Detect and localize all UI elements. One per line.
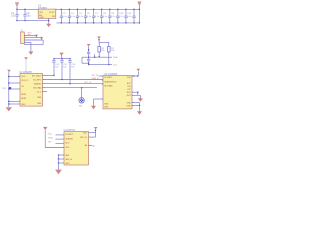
U4 pin marks	[63, 134, 64, 137]
power symbol J1-b	[40, 37, 44, 40]
svg-text:GND: GND	[127, 102, 132, 104]
wire rail C	[54, 58, 70, 60]
svg-text:INT2: INT2	[127, 95, 131, 97]
svg-text:S7V8F5: S7V8F5	[38, 7, 48, 10]
power flag VIN	[15, 2, 19, 5]
svg-text:VIN: VIN	[39, 12, 43, 14]
U3 ground bottom-left	[94, 98, 104, 100]
power symbol U4 left	[43, 127, 48, 130]
wire row R3	[43, 83, 104, 85]
svg-text:GND: GND	[127, 105, 132, 107]
capacitor C12	[133, 9, 135, 16]
ground U3 right mid	[138, 94, 141, 96]
capacitor C3	[60, 9, 62, 16]
ground U2 left	[6, 107, 12, 111]
wire pull-up rail	[99, 41, 109, 43]
connector J1	[21, 32, 25, 44]
pin marks J1	[24, 34, 25, 37]
wire rail B bottom	[57, 22, 140, 24]
capacitor C2	[24, 9, 26, 14]
capacitor C8	[101, 9, 103, 16]
U3 pin marks	[102, 75, 103, 78]
wire J1 pin5	[24, 44, 43, 46]
svg-text:GND: GND	[21, 104, 26, 106]
wire row R2	[43, 79, 104, 81]
wire R2 vertical / capacitor C15	[61, 59, 63, 61]
power flag 5V right	[137, 1, 141, 4]
wire J1 pin1	[24, 34, 35, 36]
wire row R1	[43, 74, 55, 76]
U3 right power	[132, 75, 138, 77]
power symbol 3V3 pull-ups	[97, 37, 101, 40]
resistor R2	[108, 47, 111, 53]
wire rail B top	[56, 8, 140, 10]
ground	[48, 18, 50, 23]
ground rail C	[61, 55, 63, 59]
svg-text:SDA_M: SDA_M	[92, 77, 99, 80]
svg-text:VDD: VDD	[21, 76, 26, 78]
IC U2 sensor	[20, 74, 43, 107]
wire J1 pin3	[24, 39, 43, 41]
regulator U1	[38, 9, 56, 18]
U4 ground bottom-left	[59, 154, 65, 156]
svg-text:10n: 10n	[71, 67, 74, 69]
svg-text:SDA/SDI: SDA/SDI	[65, 137, 73, 140]
svg-text:GND: GND	[39, 17, 44, 19]
svg-text:U2 LPS25H: U2 LPS25H	[19, 71, 32, 74]
U3 right mid stubs	[132, 91, 138, 93]
svg-text:A0: A0	[85, 144, 87, 147]
svg-text:SDA: SDA	[113, 56, 118, 59]
wire U2 left stubs	[9, 76, 20, 78]
IC U3	[103, 76, 132, 109]
svg-text:RES2: RES2	[21, 98, 26, 100]
wire top rail left	[17, 8, 38, 10]
svg-text:GND: GND	[104, 103, 109, 105]
wire SDA row	[87, 56, 112, 58]
svg-text:INT1: INT1	[127, 92, 131, 94]
svg-text:SCL_M: SCL_M	[84, 82, 91, 84]
U3 left stub	[99, 75, 104, 77]
svg-text:SDO/SA0: SDO/SA0	[33, 87, 41, 90]
U4 right power	[94, 127, 98, 130]
svg-text:10n: 10n	[63, 67, 66, 69]
IC U4	[64, 132, 89, 165]
capacitor C18	[88, 57, 90, 59]
svg-text:GND: GND	[37, 103, 42, 105]
U3 right lower stubs	[132, 102, 140, 104]
svg-text:SCL/SPC: SCL/SPC	[65, 134, 74, 136]
capacitor C9	[109, 9, 111, 16]
svg-text:INT_M: INT_M	[92, 75, 99, 77]
svg-text:SDA/SDI: SDA/SDI	[34, 83, 42, 86]
svg-text:VDD: VDD	[65, 147, 70, 149]
wire bottom rail left	[17, 20, 49, 22]
capacitor C5	[76, 9, 78, 16]
svg-text:SDO/SA0: SDO/SA0	[104, 84, 112, 87]
svg-text:VOUT: VOUT	[49, 12, 55, 14]
power symbol C17 branch	[87, 44, 91, 47]
svg-text:GND: GND	[65, 163, 70, 165]
power symbol J1-a	[35, 35, 39, 38]
capacitor C4	[68, 9, 70, 16]
U2 left pin marks	[19, 75, 20, 78]
svg-text:VDD: VDD	[127, 77, 132, 79]
U4 right A0 stub	[89, 144, 93, 146]
U2 right pin marks	[43, 74, 44, 77]
power symbol U2 top pin	[24, 57, 28, 60]
svg-text:VDD_IO: VDD_IO	[80, 137, 88, 139]
wire stub SDA right	[94, 54, 96, 57]
svg-text:SDA: SDA	[48, 137, 53, 140]
capacitor C7	[93, 9, 95, 16]
svg-text:SCL/SPC: SCL/SPC	[33, 79, 42, 81]
svg-text:GND: GND	[104, 107, 109, 109]
svg-text:RES1: RES1	[21, 94, 26, 96]
svg-text:U3 LIS3MDL: U3 LIS3MDL	[104, 73, 118, 76]
buzzer B1	[81, 88, 83, 98]
wire J1 pin4 to ground	[24, 41, 31, 43]
capacitor C1	[16, 9, 18, 14]
svg-text:VDD: VDD	[83, 133, 88, 135]
wire row R5	[43, 91, 48, 93]
svg-text:CS_2: CS_2	[37, 91, 42, 93]
capacitor C10	[117, 9, 119, 16]
wire row R4	[43, 87, 98, 89]
capacitor C6	[85, 9, 87, 16]
svg-text:SDO: SDO	[65, 143, 70, 145]
svg-text:INT_DRDY: INT_DRDY	[32, 75, 42, 77]
svg-text:U4 ATTINY: U4 ATTINY	[64, 129, 76, 132]
svg-text:GND_A: GND_A	[65, 158, 72, 161]
capacitor C17	[88, 51, 90, 53]
svg-text:10n: 10n	[55, 67, 58, 69]
wire SDA jog	[82, 56, 87, 58]
wire R1 vertical / capacitor C14	[53, 59, 55, 61]
capacitor C11	[125, 9, 127, 16]
wire J1 pin2	[24, 37, 40, 39]
U4 left rows	[56, 134, 65, 136]
svg-text:VDD_IO: VDD_IO	[21, 80, 29, 82]
wire R3 vertical / capacitor C16	[69, 59, 71, 61]
wire SCL row	[89, 64, 112, 66]
ground U3 right lower	[139, 106, 141, 112]
svg-text:SDA/SDI/SDO: SDA/SDI/SDO	[104, 80, 117, 83]
svg-text:C1N: C1N	[127, 86, 131, 88]
resistor R1	[98, 47, 101, 53]
power symbol U2 left	[7, 70, 11, 73]
ground J1	[28, 52, 33, 55]
svg-text:SCL/SPC: SCL/SPC	[104, 77, 113, 79]
